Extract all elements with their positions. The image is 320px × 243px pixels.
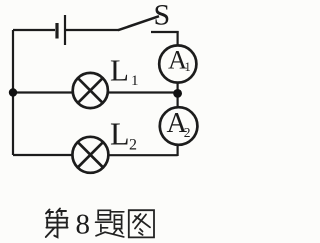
caption character 图 (129, 210, 154, 237)
wire top from left bus to battery (13, 29, 55, 31)
svg-text:L: L (110, 116, 130, 152)
wire middle from L1 to node (108, 91, 178, 93)
wire left bus (12, 30, 14, 155)
caption character 第 (46, 209, 68, 238)
svg-text:L: L (110, 53, 129, 88)
battery B1 long plate (positive) (64, 15, 66, 45)
svg-text:1: 1 (185, 60, 191, 74)
switch S lever (118, 16, 159, 30)
wire from battery to switch (66, 29, 119, 31)
svg-text:8: 8 (76, 209, 91, 241)
node junction dot left (9, 88, 17, 96)
ammeter A1 (159, 45, 196, 83)
ammeter A2 (160, 107, 198, 145)
wire bottom from L2 to A2 (108, 154, 178, 156)
wire middle from left bus to L1 (13, 91, 73, 93)
node junction dot right (173, 89, 182, 98)
wire switch contact to right corner (151, 31, 179, 33)
lamp L1 (73, 73, 108, 108)
switch S label (154, 0, 171, 32)
svg-text:2: 2 (129, 137, 137, 154)
wire down from corner to ammeter A1 (177, 31, 179, 47)
lamp L2 (72, 137, 108, 173)
battery B1 short plate (negative) (55, 23, 58, 39)
wire between A1 and A2 (177, 82, 179, 108)
svg-text:1: 1 (131, 73, 139, 89)
svg-text:2: 2 (184, 125, 191, 140)
svg-text:S: S (154, 0, 171, 32)
lamp L1 label (110, 53, 139, 90)
wire up from bottom corner into A2 (177, 144, 179, 156)
wire bottom from left bus to L2 (13, 154, 73, 156)
lamp L2 label (110, 116, 137, 154)
caption character 题 (96, 210, 124, 237)
